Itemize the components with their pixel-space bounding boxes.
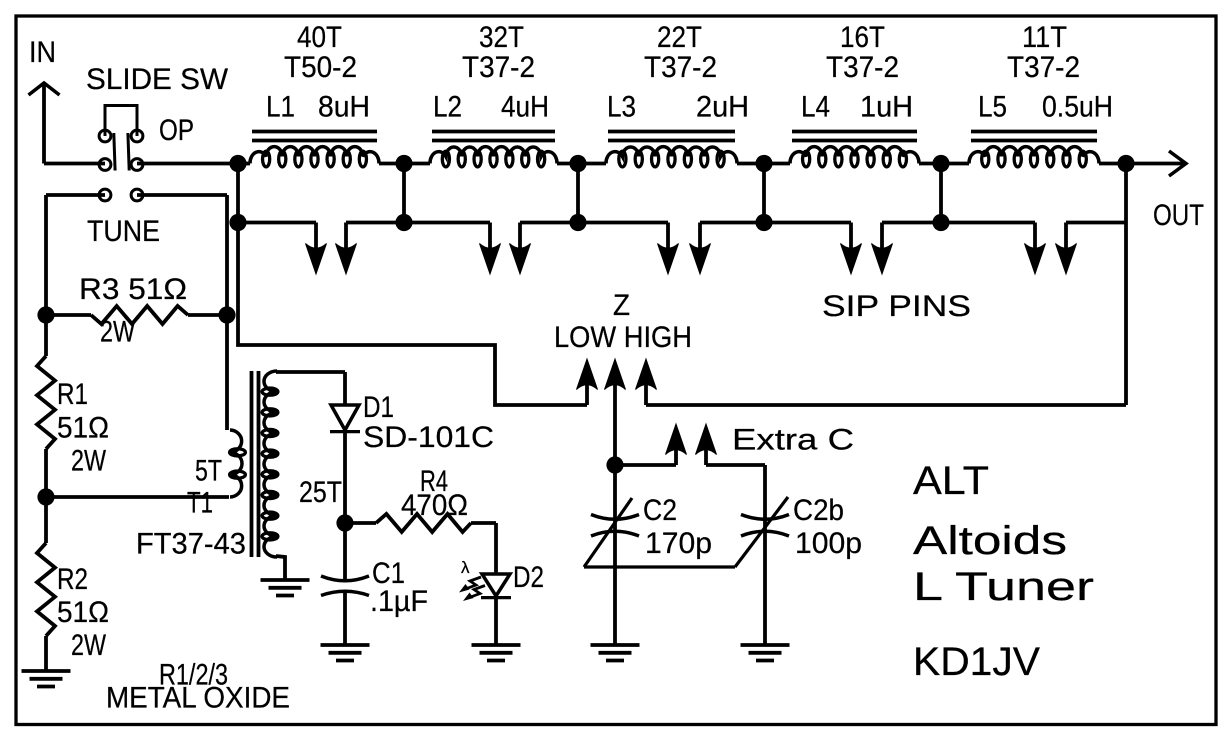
svg-text:C2: C2 [643,494,677,527]
node IN label [29,36,56,69]
svg-text:T37-2: T37-2 [1007,51,1080,84]
wire tap vertical 4 [762,164,766,223]
svg-text:Altoids: Altoids [913,519,1067,563]
ground R2 [22,671,71,687]
node bus2 junction 1 [229,214,246,231]
title Altoids [913,519,1067,563]
wire out drop [1124,164,1128,406]
svg-text:D1: D1 [363,391,394,424]
wire C2 vertical [613,465,617,645]
SIP pin arrow 3 [480,223,501,275]
node R1/R2 junction [37,488,54,505]
label Extra C [732,424,854,457]
wire bus2 segment 2a [404,221,490,225]
wire 25T bottom to ground [276,556,285,580]
LED D2 [459,523,544,645]
wire bus2 segment 2b [520,221,578,225]
Z select pin arrow COM [605,359,626,465]
svg-text:L Tuner: L Tuner [913,565,1094,609]
svg-text:R1: R1 [57,378,88,411]
label T1 [187,487,213,520]
svg-text:FT37-43: FT37-43 [136,528,246,561]
capacitor C1 .1uF [321,523,428,645]
svg-text:51Ω: 51Ω [57,596,109,629]
svg-text:1uH: 1uH [860,91,913,124]
SIP pin arrow 8 [872,223,893,275]
transformer T1 secondary 25T winding [262,371,278,557]
svg-text:L1: L1 [266,91,295,124]
svg-text:8uH: 8uH [318,91,370,124]
inductor L5 0.5uH (11T T37-2) [969,21,1113,167]
Z select pin arrow HIGH [636,359,657,405]
SIP pin arrow 10 [1056,223,1077,275]
ground D2 [472,645,521,661]
wire bus2 segment 5a [941,221,1035,225]
svg-text:L5: L5 [978,91,1007,124]
svg-text:2W: 2W [100,316,136,349]
svg-text:T37-2: T37-2 [826,51,899,84]
node main bus junction 3 [569,155,586,172]
svg-text:R2: R2 [57,563,88,596]
svg-text:2W: 2W [71,445,107,478]
svg-text:32T: 32T [479,21,524,54]
wire tap vertical 2 [402,164,406,223]
resistor R2 51 ohm 2W [37,497,109,671]
svg-text:D2: D2 [513,561,544,594]
svg-text:C2b: C2b [793,494,844,527]
label FT37-43 [136,528,246,561]
wire main bus segment 3 [557,162,606,166]
note R1/2/3 METAL OXIDE [106,659,290,715]
variable capacitor C2b 100p [735,494,862,567]
svg-text:SLIDE SW: SLIDE SW [86,63,229,96]
output arrow OUT [1126,151,1186,176]
svg-text:TUNE: TUNE [87,215,160,248]
node main bus junction 4 [755,155,772,172]
wire main bus segment 6 [1099,162,1126,166]
switch SW1 position label TUNE [87,215,160,248]
svg-text:51Ω: 51Ω [57,412,109,445]
wire main bus segment 1 [238,162,250,166]
inductor L4 1uH (16T T37-2) [790,21,919,167]
wire main bus segment 5 [919,162,969,166]
svg-text:R3 51Ω: R3 51Ω [79,273,187,306]
ground C2b [741,645,790,661]
wire TUNE left [46,195,105,315]
ground C2 [591,645,640,661]
label 5T [195,455,222,488]
wire switch to node A [137,162,238,166]
input arrow IN [29,83,60,164]
wire main bus segment 2 [379,162,430,166]
SIP pin arrow 5 [658,223,679,275]
label Z [613,289,630,322]
ground C1 [321,645,370,661]
wire main bus segment 4 [737,162,790,166]
title KD1JV [913,640,1040,684]
svg-text:22T: 22T [657,21,702,54]
Z select pin arrow LOW [577,359,598,405]
wire C2 to extra pins a [615,463,676,467]
svg-text:ALT: ALT [913,459,989,503]
svg-text:4uH: 4uH [501,91,549,124]
diode D1 SD-101C [330,372,494,523]
svg-text:LOW HIGH: LOW HIGH [554,321,692,354]
svg-text:SD-101C: SD-101C [363,421,494,454]
svg-text:T37-2: T37-2 [644,51,717,84]
svg-text:IN: IN [29,36,56,69]
wire bus2 segment 5b [1066,221,1126,225]
ground T1 [261,580,310,596]
svg-text:L3: L3 [607,91,636,124]
node R3 right [218,306,235,323]
label LOW HIGH [554,321,692,354]
svg-text:Z: Z [613,289,630,322]
svg-text:170p: 170p [645,527,712,560]
wire R3 to T1 primary [225,315,229,430]
wire gang link [584,565,735,568]
svg-text:2uH: 2uH [696,91,749,124]
node R3 left [37,306,54,323]
svg-text:KD1JV: KD1JV [913,640,1040,684]
node bus2 junction 5 [932,214,949,231]
node bus2 junction 4 [755,214,772,231]
svg-text:T50-2: T50-2 [284,51,357,84]
SIP pin arrow 1 [306,223,327,275]
svg-text:SIP PINS: SIP PINS [822,290,971,323]
node main bus junction 2 [395,155,412,172]
SIP pin arrow 9 [1025,223,1046,275]
node main bus junction 1 [229,155,246,172]
node D1/R4/C1 junction [336,514,353,531]
wire IN to switch [44,162,105,166]
wire to C2b [763,465,767,645]
transformer T1 core [252,371,259,557]
wire tap vertical 3 [576,164,580,223]
svg-text:0.5uH: 0.5uH [1042,91,1113,124]
SIP pin arrow 7 [841,223,862,275]
inductor L3 2uH (22T T37-2) [606,21,749,167]
switch SW1 position label OP [159,114,194,147]
wire C2 to extra pins b [706,463,765,467]
resistor R1 51 ohm 2W [37,315,109,497]
svg-text:L2: L2 [433,91,462,124]
svg-text:5T: 5T [195,455,222,488]
wire bus2 segment 1b [346,221,404,225]
node bus2 junction 2 [395,214,412,231]
extra C pin arrow 1 [666,424,687,465]
wire Z feed left [238,223,587,406]
wire bus2 segment 3b [700,221,764,225]
svg-text:λ: λ [461,558,470,577]
inductor L2 4uH (32T T37-2) [430,21,557,167]
svg-text:2W: 2W [71,629,107,662]
svg-text:Extra C: Extra C [732,424,854,457]
svg-text:.1µF: .1µF [370,585,428,618]
transformer T1 primary 5T winding [46,430,245,497]
node C2 top junction [606,456,623,473]
label 25T [299,476,342,509]
svg-text:16T: 16T [840,21,885,54]
svg-text:470Ω: 470Ω [401,489,468,522]
wire bus2 segment 4a [764,221,851,225]
wire bus2 segment 1a [238,221,316,225]
node main bus junction 5 [932,155,949,172]
wire bus2 segment 4b [882,221,941,225]
resistor R4 470 ohm [345,465,496,532]
svg-text:L4: L4 [801,91,830,124]
wire bus2 segment 3a [578,221,668,225]
svg-text:25T: 25T [299,476,342,509]
wire TUNE right [137,195,227,315]
SIP pin arrow 2 [336,223,357,275]
title L Tuner [913,565,1094,609]
extra C pin arrow 2 [696,424,717,465]
svg-text:METAL OXIDE: METAL OXIDE [106,682,290,715]
variable capacitor C2 170p [584,494,712,567]
node main bus junction 6 [1117,155,1134,172]
svg-text:T1: T1 [187,487,213,520]
switch SW1 label SLIDE SW [86,63,229,96]
label SIP PINS [822,290,971,323]
node bus2 junction 3 [569,214,586,231]
svg-text:11T: 11T [1022,21,1067,54]
node OUT label [1153,199,1204,232]
wire 25T top to D1 [276,370,345,374]
title ALT [913,459,989,503]
svg-text:OP: OP [159,114,194,147]
resistor R3 51 ohm 2W [46,273,227,349]
wire Z feed right [646,403,1126,407]
switch SW1 slide switch [99,106,143,201]
svg-text:100p: 100p [795,527,862,560]
wire tap vertical 5 [939,164,943,223]
SIP pin arrow 4 [510,223,531,275]
svg-text:T37-2: T37-2 [462,51,535,84]
svg-text:40T: 40T [297,21,342,54]
svg-text:OUT: OUT [1153,199,1204,232]
SIP pin arrow 6 [690,223,711,275]
inductor L1 8uH (40T T50-2) [250,21,379,167]
wire tap vertical 1 [236,164,240,223]
